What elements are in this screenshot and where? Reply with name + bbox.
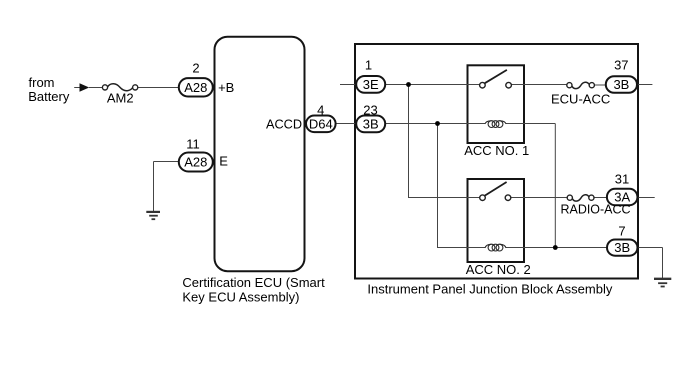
- svg-text:AM2: AM2: [107, 90, 134, 105]
- svg-text:4: 4: [317, 102, 324, 117]
- svg-text:23: 23: [363, 102, 377, 117]
- svg-text:3A: 3A: [614, 190, 630, 205]
- svg-text:ACC NO. 2: ACC NO. 2: [466, 262, 531, 277]
- svg-text:11: 11: [186, 137, 200, 152]
- svg-text:3B: 3B: [363, 116, 379, 131]
- svg-text:37: 37: [614, 58, 628, 73]
- svg-text:2: 2: [192, 60, 199, 75]
- svg-text:3E: 3E: [363, 77, 379, 92]
- svg-text:A28: A28: [184, 80, 207, 95]
- svg-text:31: 31: [615, 172, 629, 187]
- svg-text:Instrument Panel Junction Bloc: Instrument Panel Junction Block Assembly: [367, 282, 612, 297]
- svg-text:ACCD: ACCD: [266, 116, 302, 131]
- svg-text:E: E: [219, 154, 228, 169]
- svg-text:1: 1: [365, 58, 372, 73]
- svg-text:7: 7: [618, 223, 625, 238]
- svg-text:from: from: [29, 75, 55, 90]
- svg-text:A28: A28: [184, 154, 207, 169]
- svg-text:3B: 3B: [614, 240, 630, 255]
- svg-text:+B: +B: [218, 80, 234, 95]
- svg-text:ACC NO. 1: ACC NO. 1: [464, 143, 529, 158]
- svg-text:ECU-ACC: ECU-ACC: [551, 91, 610, 106]
- svg-text:Battery: Battery: [28, 89, 70, 104]
- svg-text:D64: D64: [309, 116, 333, 131]
- svg-text:Key ECU Assembly): Key ECU Assembly): [182, 290, 299, 305]
- svg-text:Certification ECU (Smart: Certification ECU (Smart: [182, 275, 325, 290]
- svg-text:3B: 3B: [613, 77, 629, 92]
